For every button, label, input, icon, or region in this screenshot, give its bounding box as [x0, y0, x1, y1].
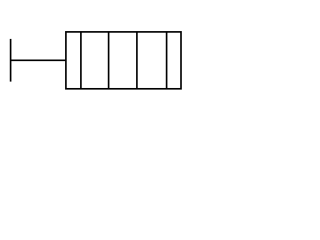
component body: segmented box	[66, 32, 181, 89]
wire	[11, 59, 66, 61]
divider 2	[108, 32, 110, 89]
divider 4	[166, 32, 168, 89]
terminal bar T1 (left electrode)	[10, 39, 12, 82]
divider 3	[136, 32, 138, 89]
divider 1	[80, 32, 82, 89]
